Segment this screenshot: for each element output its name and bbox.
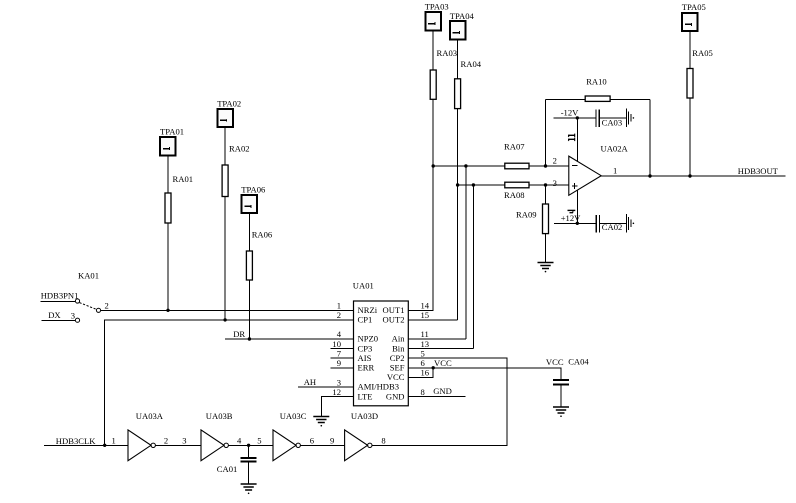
svg-text:DX: DX bbox=[48, 310, 61, 320]
wire Bin pin 13 bbox=[408, 348, 473, 350]
wire HDB3CLK input bbox=[44, 444, 128, 446]
test point TPA01 bbox=[160, 127, 184, 156]
power rail -12V bbox=[554, 107, 596, 118]
wire UA03C out to UA03D in bbox=[300, 444, 344, 446]
svg-text:9: 9 bbox=[337, 358, 341, 368]
svg-text:UA03C: UA03C bbox=[280, 411, 307, 421]
svg-text:12: 12 bbox=[332, 387, 341, 397]
junction RA09/row3 bbox=[544, 183, 547, 186]
svg-text:UA03B: UA03B bbox=[206, 411, 233, 421]
wire DR / NPZ0 pin 4 bbox=[225, 338, 353, 340]
stub CP3 pin 10 bbox=[331, 348, 354, 350]
wire GND pin 8 bbox=[408, 396, 465, 398]
svg-text:14: 14 bbox=[421, 301, 430, 311]
svg-text:AMI/HDB3: AMI/HDB3 bbox=[358, 382, 400, 392]
ground (rotated) for CA03 bbox=[626, 109, 634, 128]
wire TPA03 to RA03 bbox=[432, 30, 434, 70]
svg-text:-12V: -12V bbox=[561, 107, 579, 117]
svg-text:AH: AH bbox=[304, 377, 316, 387]
capacitor CA02 bbox=[596, 215, 622, 232]
svg-text:1: 1 bbox=[337, 301, 341, 311]
wire CA01 top bbox=[248, 445, 250, 458]
wire row3: non-inverting input net bbox=[458, 184, 569, 186]
svg-text:SEF: SEF bbox=[390, 363, 405, 373]
ground for LTE bbox=[313, 417, 329, 427]
wire op-amp output bbox=[601, 175, 785, 177]
junction RA05/output bbox=[688, 174, 691, 177]
svg-text:2: 2 bbox=[105, 300, 109, 310]
svg-text:4: 4 bbox=[337, 329, 342, 339]
svg-text:VCC: VCC bbox=[387, 372, 405, 382]
inverter UA03C bbox=[273, 411, 307, 461]
svg-text:CA01: CA01 bbox=[217, 464, 238, 474]
wire Ain pin 11 bbox=[408, 338, 466, 340]
svg-text:7: 7 bbox=[337, 348, 342, 358]
test point TPA05 bbox=[682, 2, 706, 31]
resistor RA01 bbox=[165, 174, 193, 223]
test point TPA03 bbox=[425, 2, 449, 31]
svg-text:RA10: RA10 bbox=[586, 76, 607, 86]
svg-text:6: 6 bbox=[421, 358, 426, 368]
svg-text:+12V: +12V bbox=[561, 213, 581, 223]
junction RA01/NRZi bbox=[166, 309, 169, 312]
svg-text:CA04: CA04 bbox=[568, 356, 589, 366]
svg-text:LTE: LTE bbox=[358, 391, 373, 401]
stub ERR pin 9 bbox=[331, 367, 354, 369]
svg-text:2: 2 bbox=[337, 310, 341, 320]
IC UA01 bbox=[353, 280, 409, 405]
stub AIS pin 7 bbox=[331, 357, 354, 359]
resistor RA08 bbox=[504, 182, 529, 200]
wire TPA05 to RA05 bbox=[689, 31, 691, 68]
junction RA06/DR bbox=[248, 337, 251, 340]
svg-text:1: 1 bbox=[112, 436, 116, 446]
wire OUT2 pin 15 bbox=[408, 319, 457, 321]
svg-text:5: 5 bbox=[257, 436, 261, 446]
wire CA03 to ground bbox=[599, 117, 626, 119]
wire feedback loop left riser bbox=[545, 99, 547, 166]
wire UA03A out to UA03B in bbox=[155, 444, 201, 446]
wire RA05 down to output row bbox=[689, 98, 691, 176]
wire TPA02 to RA02 bbox=[224, 127, 226, 165]
junction SEF/pin16 bbox=[432, 366, 435, 369]
wire feedback loop right riser bbox=[649, 99, 651, 176]
wire CA04 to ground bbox=[560, 385, 562, 407]
svg-text:HDB3PN1: HDB3PN1 bbox=[41, 290, 79, 300]
junction +12V/pin4 bbox=[576, 222, 579, 225]
svg-text:CP3: CP3 bbox=[358, 343, 373, 353]
svg-text:RA08: RA08 bbox=[504, 190, 525, 200]
wire Ain riser bbox=[465, 166, 467, 339]
wire TPA01 to RA01 bbox=[167, 155, 169, 193]
svg-text:UA03D: UA03D bbox=[351, 411, 378, 421]
svg-text:RA09: RA09 bbox=[516, 209, 537, 219]
wire SEF pin 6 / VCC net bbox=[408, 368, 561, 380]
svg-text:Ain: Ain bbox=[392, 334, 406, 344]
wire TPA04 to RA04 bbox=[457, 39, 459, 79]
wire RA09 to ground bbox=[545, 234, 547, 263]
svg-text:TPA05: TPA05 bbox=[682, 2, 706, 12]
svg-text:Bin: Bin bbox=[392, 343, 405, 353]
svg-text:TPA04: TPA04 bbox=[450, 11, 475, 21]
svg-text:3: 3 bbox=[553, 178, 557, 188]
wire RA03 down to OUT1 row bbox=[432, 99, 434, 310]
svg-text:RA02: RA02 bbox=[229, 144, 250, 154]
resistor RA10 bbox=[585, 76, 610, 101]
svg-text:ERR: ERR bbox=[358, 363, 375, 373]
svg-text:TPA02: TPA02 bbox=[217, 98, 241, 108]
test point TPA02 bbox=[217, 98, 241, 127]
capacitor CA01 bbox=[217, 458, 257, 474]
junction Bin riser/row3 bbox=[472, 183, 475, 186]
wire OUT1 pin 14 bbox=[408, 166, 433, 310]
svg-text:VCC: VCC bbox=[546, 357, 564, 367]
inverter UA03D bbox=[345, 411, 379, 461]
svg-text:HDB3CLK: HDB3CLK bbox=[56, 436, 96, 446]
svg-text:8: 8 bbox=[381, 436, 385, 446]
svg-text:2: 2 bbox=[553, 155, 557, 165]
svg-text:TPA06: TPA06 bbox=[241, 184, 266, 194]
svg-text:NRZi: NRZi bbox=[358, 305, 378, 315]
test point TPA06 bbox=[241, 184, 266, 213]
resistor RA02 bbox=[222, 144, 249, 197]
resistor RA06 bbox=[246, 230, 273, 280]
power rail +12V bbox=[554, 213, 596, 223]
junction feedback/output bbox=[648, 174, 651, 177]
svg-text:10: 10 bbox=[332, 339, 341, 349]
svg-text:NPZ0: NPZ0 bbox=[358, 334, 379, 344]
svg-text:GND: GND bbox=[433, 386, 452, 396]
wire feedback loop top bbox=[546, 98, 651, 100]
resistor RA04 bbox=[455, 59, 482, 109]
junction feedback/row2 bbox=[544, 164, 547, 167]
svg-text:KA01: KA01 bbox=[78, 271, 99, 281]
wire RA01 to NRZi row bbox=[167, 223, 169, 310]
svg-text:VCC: VCC bbox=[434, 358, 452, 368]
svg-text:AIS: AIS bbox=[358, 353, 372, 363]
wire row3 to RA09 bbox=[545, 185, 547, 204]
junction RA04/row3 bbox=[456, 183, 459, 186]
inverter UA03A bbox=[128, 411, 164, 461]
svg-text:UA01: UA01 bbox=[353, 280, 374, 290]
junction CA01 bbox=[247, 444, 250, 447]
junction RA03/row2 bbox=[432, 164, 435, 167]
wire pin4 to op-amp bottom bbox=[576, 190, 578, 223]
resistor RA05 bbox=[687, 48, 713, 98]
svg-text:3: 3 bbox=[71, 310, 75, 320]
resistor RA07 bbox=[504, 142, 529, 169]
wire switch to NRZi pin 1 bbox=[101, 309, 354, 311]
svg-text:TPA03: TPA03 bbox=[425, 2, 449, 12]
wire HDB3CLK riser to CP1 bbox=[105, 320, 354, 445]
svg-text:RA05: RA05 bbox=[692, 48, 713, 58]
svg-text:6: 6 bbox=[310, 436, 315, 446]
resistor RA03 bbox=[430, 48, 457, 99]
svg-text:GND: GND bbox=[386, 391, 405, 401]
wire RA04 down to OUT2 row bbox=[457, 109, 459, 320]
svg-text:DR: DR bbox=[233, 329, 245, 339]
svg-text:1: 1 bbox=[613, 165, 617, 175]
svg-text:11: 11 bbox=[421, 329, 429, 339]
svg-text:OUT2: OUT2 bbox=[383, 315, 405, 325]
svg-text:CP2: CP2 bbox=[390, 353, 405, 363]
wire CA02 to ground bbox=[600, 222, 627, 224]
wire RA06 to NPZ0/DR row bbox=[248, 280, 250, 339]
svg-text:RA07: RA07 bbox=[504, 142, 525, 152]
wire VCC pin 16 bbox=[408, 368, 433, 378]
svg-text:4: 4 bbox=[237, 436, 242, 446]
svg-text:RA03: RA03 bbox=[437, 48, 458, 58]
ground for CA01 bbox=[241, 484, 257, 494]
capacitor CA04 bbox=[553, 356, 589, 384]
junction -12V/pin11 bbox=[576, 116, 579, 119]
svg-text:CP1: CP1 bbox=[358, 315, 373, 325]
test point TPA04 bbox=[450, 11, 475, 39]
svg-text:HDB3OUT: HDB3OUT bbox=[738, 166, 779, 176]
op-amp UA02A bbox=[553, 134, 629, 213]
resistor RA09 bbox=[516, 204, 549, 234]
inverter UA03B bbox=[201, 411, 233, 461]
switch KA01 bbox=[41, 271, 109, 323]
svg-text:RA01: RA01 bbox=[173, 174, 194, 184]
wire CA01 to ground bbox=[248, 462, 250, 485]
wire LTE pin 12 to ground bbox=[321, 397, 353, 417]
wire RA02 to CP1 row bbox=[224, 197, 226, 320]
svg-text:RA06: RA06 bbox=[252, 230, 273, 240]
svg-text:5: 5 bbox=[421, 348, 425, 358]
wire CP2 pin 5 bbox=[372, 358, 507, 445]
svg-text:8: 8 bbox=[421, 387, 425, 397]
svg-text:9: 9 bbox=[330, 436, 334, 446]
ground for CA04 bbox=[553, 407, 569, 417]
wire TPA06 to RA06 bbox=[248, 213, 250, 251]
svg-text:TPA01: TPA01 bbox=[160, 127, 184, 137]
ground for RA09 bbox=[538, 263, 554, 273]
junction RA02/CP1 bbox=[223, 318, 226, 321]
svg-text:13: 13 bbox=[421, 339, 430, 349]
svg-text:2: 2 bbox=[164, 436, 168, 446]
wire AH / AMI-HDB3 pin 3 bbox=[298, 386, 353, 388]
svg-text:OUT1: OUT1 bbox=[383, 305, 405, 315]
wire pin11 to op-amp top bbox=[576, 118, 578, 161]
svg-text:3: 3 bbox=[182, 436, 186, 446]
svg-text:15: 15 bbox=[421, 310, 430, 320]
svg-text:CA03: CA03 bbox=[602, 118, 623, 128]
wire UA03B out to UA03C in bbox=[228, 444, 273, 446]
ground (rotated) for CA02 bbox=[626, 214, 634, 233]
wire row2: inverting input net bbox=[433, 165, 569, 167]
svg-text:16: 16 bbox=[421, 368, 430, 378]
svg-text:UA03A: UA03A bbox=[136, 411, 164, 421]
junction Ain riser/row2 bbox=[464, 164, 467, 167]
capacitor CA03 bbox=[596, 110, 622, 128]
wire Bin riser bbox=[472, 185, 474, 349]
junction HDB3CLK riser bbox=[103, 444, 106, 447]
svg-text:UA02A: UA02A bbox=[601, 144, 629, 154]
svg-text:RA04: RA04 bbox=[461, 59, 482, 69]
